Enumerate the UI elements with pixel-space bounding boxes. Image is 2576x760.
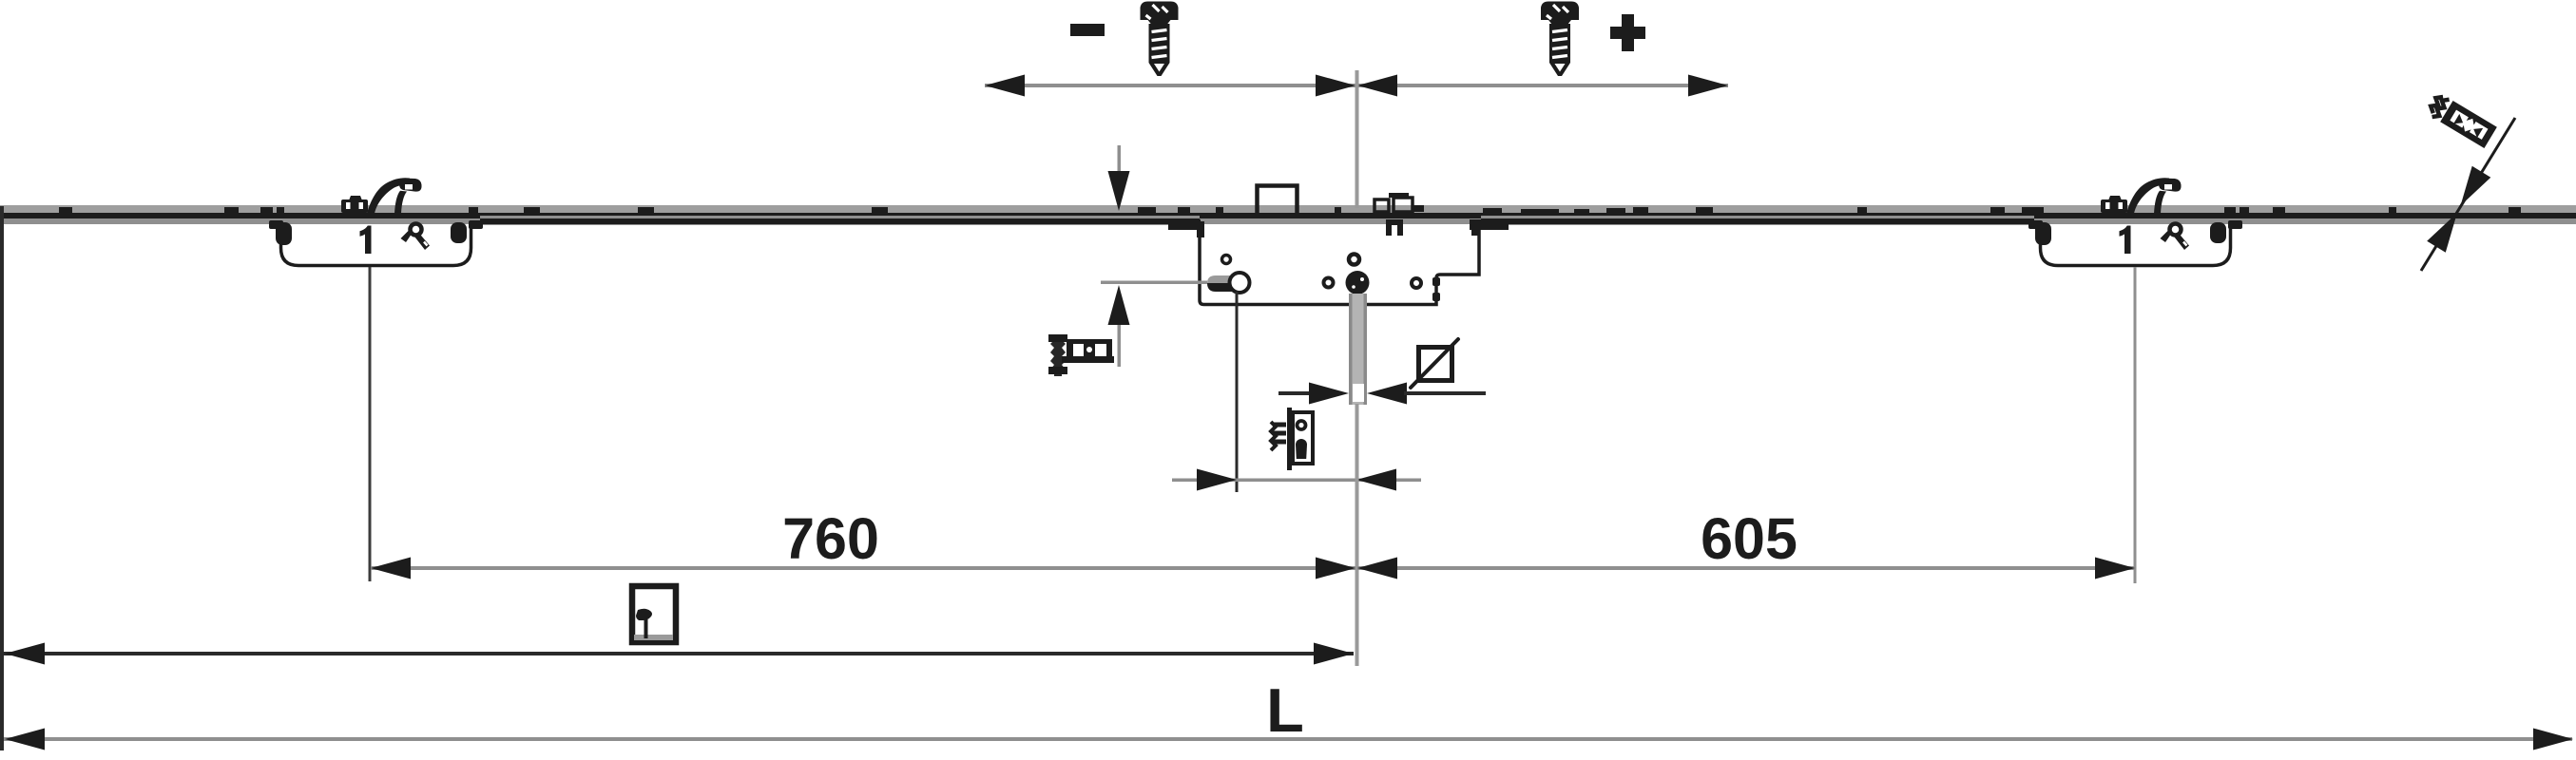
housing top-left corner post — [1197, 221, 1204, 237]
tilted screw-plate pictogram — [2427, 92, 2497, 148]
arrow into bar from left — [1309, 383, 1349, 405]
arrow right end 605 — [2095, 558, 2135, 579]
plus symbol — [1610, 14, 1645, 51]
screw left — [1141, 2, 1179, 77]
arrow right at centre — [1314, 643, 1354, 665]
gear housing outline — [1200, 225, 1479, 305]
fastener pictogram — [1048, 334, 1114, 376]
arrow right end 760 — [1316, 558, 1355, 579]
cylinder axis extension line — [1236, 292, 1239, 492]
housing top-right corner post — [1471, 226, 1478, 236]
left hook descender — [394, 191, 407, 214]
diagonal line — [2421, 118, 2515, 271]
cylinder slot — [1207, 273, 1250, 293]
top dimension line left segment — [985, 84, 1355, 87]
small hole upper-left of housing — [1222, 256, 1231, 264]
ring above follower — [1349, 255, 1359, 265]
arrow left — [5, 643, 45, 665]
arrow pointing left at centre line — [1356, 469, 1396, 491]
left cam block on rail — [341, 196, 368, 213]
svg-text:760: 760 — [782, 506, 879, 571]
clamp element on rail right of centre — [1375, 193, 1424, 212]
left pocket corner tab left — [269, 220, 292, 245]
right axis extension line — [2134, 267, 2137, 583]
window sash pictogram — [632, 586, 676, 642]
dim line 605 — [1357, 566, 2135, 570]
down arrowhead — [1108, 171, 1130, 211]
dim line — [1172, 479, 1421, 483]
spindle follower — [1346, 271, 1370, 294]
faceplate rail full width — [0, 205, 2576, 224]
arrowhead left (points left) — [985, 75, 1025, 97]
arrowhead at centre pointing left — [1357, 75, 1397, 97]
up arrowhead — [1108, 285, 1130, 325]
arrow pointing right at cylinder axis — [1197, 469, 1237, 491]
svg-text:605: 605 — [1701, 506, 1797, 571]
arrow left — [5, 729, 45, 750]
svg-text:L: L — [1266, 675, 1304, 745]
white notch in left hook head — [405, 184, 413, 190]
vertical dim line upper segment — [1118, 145, 1122, 181]
small ring right of follower — [1412, 278, 1421, 288]
minus symbol — [1070, 24, 1105, 36]
square-diagonal symbol — [1411, 339, 1458, 388]
drive rod edge (dark underline) right segment — [1481, 216, 2034, 225]
left frame edge vertical line — [0, 206, 4, 750]
left striker pocket — [281, 225, 471, 266]
arrow left end 605 — [1357, 558, 1397, 579]
arrowhead at centre pointing right — [1316, 75, 1355, 97]
right cam block, hook and striker pocket — [2028, 178, 2242, 265]
arrow into bar from right — [1367, 383, 1407, 405]
drive rod edge (dark underline) left segment — [480, 216, 1200, 225]
left axis extension line — [369, 267, 372, 581]
rivet ticks on rail top — [59, 207, 2521, 213]
left pocket key logo — [401, 224, 431, 251]
square spindle bar — [1349, 294, 1367, 405]
arrowhead right (points right) — [1688, 75, 1728, 97]
step knobs on housing right step — [1432, 277, 1440, 286]
right stub — [1404, 391, 1486, 395]
arrow right — [2533, 729, 2573, 750]
left pocket corner tab right — [451, 220, 483, 243]
left hook head — [399, 179, 422, 192]
horizontal extension line from cylinder axis — [1101, 281, 1207, 285]
screw right — [1541, 2, 1579, 77]
latch loop above rail — [1258, 186, 1298, 214]
housing top-left mounting tab — [1168, 219, 1201, 230]
housing top-right mounting tab — [1470, 219, 1509, 230]
dim line 760 — [371, 566, 1355, 570]
clamp retainer tab below rail — [1386, 219, 1403, 236]
centre vertical reference line top segment — [1355, 70, 1359, 208]
upper arrowhead pointing to rail — [2451, 166, 2491, 212]
vertical dim line lower segment — [1118, 325, 1122, 367]
left stub — [1278, 391, 1311, 395]
left hook neck — [367, 178, 410, 214]
centre vertical reference line lower segment — [1355, 404, 1359, 666]
gear pictogram — [1271, 408, 1313, 470]
small ring left of follower — [1324, 278, 1334, 288]
top dimension line right segment — [1357, 84, 1728, 87]
arrow left end 760 — [371, 558, 411, 579]
lower arrowhead pointing to rail — [2427, 207, 2467, 253]
left pocket number 1 — [360, 226, 372, 255]
